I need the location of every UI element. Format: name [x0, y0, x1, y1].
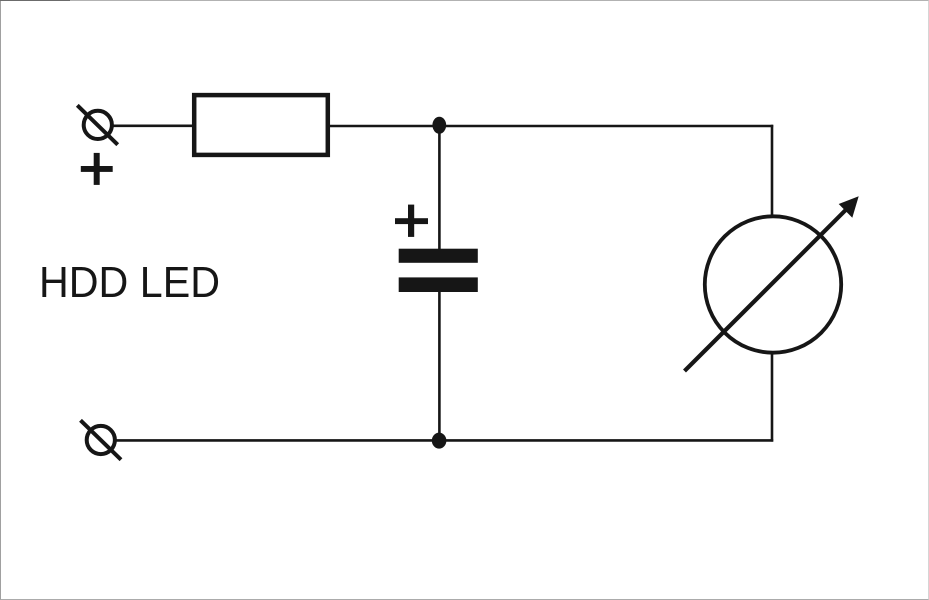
- polarity plus at capacitor: [395, 205, 428, 237]
- capacitor C1 bottom plate: [399, 277, 478, 292]
- meter M1 (variable lamp/meter circle): [705, 216, 841, 352]
- wire: capacitor branch, bottom plate to bottom rail: [438, 292, 441, 440]
- svg-text:HDD LED: HDD LED: [39, 258, 220, 307]
- wire: right branch, meter to bottom corner: [771, 354, 774, 442]
- terminal X2 (bottom input, circle with slash): [81, 420, 122, 459]
- wire: top rail, resistor to right corner: [328, 125, 773, 128]
- node: bottom junction dot: [432, 433, 447, 449]
- arrow head: [839, 196, 859, 217]
- wire: capacitor branch, node to top plate: [438, 126, 441, 249]
- polarity plus at top terminal: [81, 153, 113, 185]
- terminal X1 (top input, circle with slash): [77, 105, 117, 144]
- node: top junction dot: [432, 117, 446, 134]
- wire: right branch, top corner down to meter: [771, 125, 774, 216]
- arrow shaft across meter: [685, 210, 847, 371]
- resistor R1: [194, 95, 328, 155]
- wire: bottom rail: [114, 439, 773, 442]
- wire: top rail, terminal to resistor: [111, 125, 194, 128]
- capacitor C1 top plate: [399, 249, 478, 263]
